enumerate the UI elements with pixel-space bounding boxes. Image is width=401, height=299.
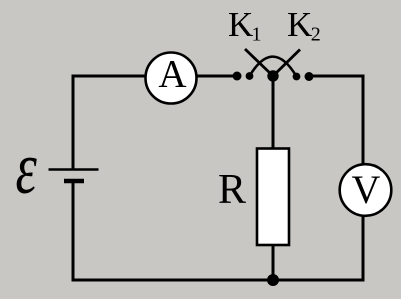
svg-text:2: 2: [311, 24, 321, 46]
svg-text:1: 1: [252, 24, 262, 46]
wire: left vertical from top corner down to battery top plate: [72, 75, 75, 170]
wire: center vertical from resistor bottom to bottom junction: [272, 244, 275, 280]
node: right outer contact dot: [305, 72, 314, 81]
switch K1 blade: [245, 49, 273, 76]
node: center common dot: [267, 70, 278, 81]
node: left inner contact dot: [246, 72, 254, 80]
svg-text:ε: ε: [16, 128, 38, 210]
switch arc between inner contacts: [250, 57, 297, 77]
svg-text:K: K: [228, 5, 253, 44]
svg-text:V: V: [352, 167, 381, 212]
wire: top-right horizontal from switch K2 to corner: [309, 75, 365, 78]
switch K2 blade: [273, 50, 300, 77]
wire: right vertical from top corner down to voltmeter: [362, 75, 365, 166]
resistor R body: [257, 149, 289, 246]
node: bottom junction dot: [267, 274, 279, 286]
battery short thick plate: [64, 179, 84, 184]
svg-text:K: K: [287, 5, 312, 44]
ammeter A: [146, 53, 197, 104]
svg-text:A: A: [158, 53, 186, 96]
voltmeter V: [340, 164, 392, 216]
svg-text:R: R: [218, 167, 246, 213]
wire: left vertical from battery bottom plate down to bottom corner: [72, 181, 75, 282]
wire: center vertical from switch common node to resistor top: [272, 76, 275, 150]
wire: top-left horizontal from corner to ammeter: [73, 75, 146, 78]
switch assembly K1/K2: [233, 49, 314, 82]
wire: ammeter to switch K1: [196, 75, 237, 78]
wire: bottom horizontal: [72, 279, 365, 282]
node: right inner contact dot: [293, 73, 301, 81]
node: left outer contact dot: [233, 72, 242, 81]
wire: right vertical from voltmeter bottom to bottom wire: [362, 215, 365, 280]
battery EMF source: [49, 170, 99, 182]
battery long plate: [49, 168, 99, 171]
